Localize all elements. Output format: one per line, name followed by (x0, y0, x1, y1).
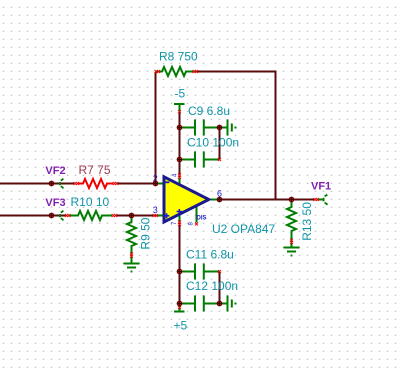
junction node C9 right (217, 125, 223, 131)
capacitor C11 (180, 264, 220, 280)
op-amp minus input mark (165, 181, 169, 183)
junction node +5 rail C12 (177, 301, 183, 307)
junction node R9 top (129, 213, 135, 219)
pin number 8 rotated (188, 222, 194, 226)
wire VF2 input horizontal (0, 183, 157, 185)
junction node R13 top (289, 197, 295, 203)
svg-text:-5: -5 (175, 87, 186, 101)
junction node -5 rail C9 (177, 125, 183, 131)
resistor R9 vertical (127, 216, 136, 263)
resistor R8 (156, 67, 198, 76)
battery symbol right of C12 row (220, 296, 232, 312)
svg-text:C9 6.8u: C9 6.8u (188, 104, 230, 118)
pin number 7 (bottom supply pin, rotated) (172, 221, 178, 225)
op-amp U2 pin stubs (156, 176, 220, 223)
resistor R13 vertical (287, 200, 296, 247)
svg-text:R13 50: R13 50 (300, 202, 314, 241)
svg-text:VF1: VF1 (311, 181, 331, 193)
svg-text:VF2: VF2 (45, 165, 65, 177)
supply +5 (174, 303, 185, 312)
ground below R9 (124, 264, 140, 272)
junction node inverting input (153, 181, 159, 187)
junction node VF3 (49, 213, 55, 219)
junction node -5 rail C10 (177, 157, 183, 163)
svg-text:R9 50: R9 50 (139, 217, 153, 249)
junction node VF2 (49, 181, 55, 187)
wire feedback left vertical (155, 72, 157, 184)
junction node output pin6 (217, 197, 223, 203)
junction node C12 right (217, 301, 223, 307)
svg-text:R7 75: R7 75 (79, 163, 111, 177)
svg-text:U2 OPA847: U2 OPA847 (212, 222, 275, 236)
junction node +5 rail C11 (177, 269, 183, 275)
wire output horizontal (220, 199, 315, 201)
capacitor C12 (180, 296, 220, 312)
op-amp U2 OPA847 triangle (164, 177, 209, 222)
wire -5 rail left (179, 112, 181, 175)
wire rail right top (219, 128, 221, 160)
wire feedback top + right vertical (197, 72, 276, 200)
svg-text:DIS: DIS (197, 216, 207, 222)
resistor R7 (selected, red) (78, 179, 113, 188)
pin number 4 (top supply pin, rotated) (173, 173, 179, 177)
capacitor C9 (180, 120, 220, 136)
svg-text:3: 3 (153, 205, 158, 215)
wire rail right bottom (219, 272, 221, 304)
wire VF3 input horizontal (0, 215, 157, 217)
svg-text:C10 100n: C10 100n (187, 136, 239, 150)
op-amp power plus mark (177, 209, 182, 214)
op-amp plus input mark (164, 213, 169, 218)
svg-text:C12 100n: C12 100n (186, 279, 238, 293)
svg-text:C11 6.8u: C11 6.8u (186, 247, 234, 261)
battery symbol right of C9 row (220, 120, 232, 136)
ground below R13 (284, 248, 300, 256)
capacitor C10 (180, 152, 220, 168)
svg-text:R10 10: R10 10 (71, 195, 110, 209)
pin connection x-marks (pins 3,4,7,8) (153, 214, 156, 217)
svg-text:+5: +5 (174, 319, 188, 333)
svg-text:VF3: VF3 (45, 197, 65, 209)
svg-text:R8 750: R8 750 (159, 50, 198, 64)
wire +5 rail left bottom (179, 223, 181, 306)
resistor R10 (69, 211, 112, 220)
supply -5 (174, 104, 185, 112)
